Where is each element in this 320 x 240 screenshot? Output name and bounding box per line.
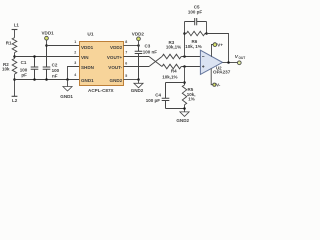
svg-text:C1: C1 (21, 60, 27, 65)
svg-text:100 pF: 100 pF (146, 98, 161, 103)
svg-text:VDD1: VDD1 (42, 30, 55, 35)
node feedback R6 left (183, 32, 186, 35)
wire feedback to output (207, 34, 229, 63)
ground GND1 (63, 87, 72, 92)
resistor R1 (12, 38, 17, 53)
node output junction (227, 61, 230, 64)
wire feedback right vertical (206, 22, 208, 34)
wire pin7 (124, 56, 150, 58)
svg-text:6: 6 (125, 61, 127, 65)
wire R5 branch vertical (184, 67, 186, 86)
wire R5 bottom (184, 105, 186, 112)
svg-text:V+: V+ (217, 42, 223, 47)
svg-text:10k, 1%: 10k, 1% (185, 44, 202, 49)
wire C4 tap (166, 82, 185, 84)
capacitor C2 (43, 46, 51, 80)
terminal L2 (12, 95, 18, 97)
svg-text:GND1: GND1 (81, 78, 94, 83)
node R4 junction (183, 65, 186, 68)
svg-text:VDD2: VDD2 (110, 45, 123, 50)
node C4 tap (183, 81, 186, 84)
wire R4 to op-amp (181, 66, 200, 68)
svg-text:3: 3 (74, 61, 76, 65)
svg-text:C4: C4 (155, 93, 161, 98)
op-amp minus input mark (202, 56, 204, 58)
svg-text:VOUT+: VOUT+ (107, 55, 123, 60)
wire R6 stubs (185, 33, 207, 35)
wire GND1 rail (15, 79, 80, 81)
capacitor C3 (135, 46, 143, 80)
op-amp plus input mark (202, 65, 204, 67)
capacitor C4 (162, 83, 170, 109)
svg-text:8: 8 (125, 40, 127, 44)
svg-text:U1: U1 (87, 32, 93, 38)
capacitor C5 (185, 18, 207, 25)
svg-text:GND1: GND1 (60, 94, 73, 99)
wire VDD2 drop (138, 41, 140, 46)
svg-text:100: 100 (52, 68, 60, 73)
wire VIN (15, 56, 80, 58)
svg-text:OUT: OUT (239, 56, 246, 60)
wire pin8 (124, 45, 139, 47)
wire GND1 stub (67, 80, 69, 87)
svg-text:1: 1 (74, 40, 76, 44)
svg-text:GND2: GND2 (176, 118, 189, 123)
wire R3 to op-amp (181, 56, 200, 58)
wire feedback left vertical (184, 22, 186, 57)
node GND2 junction (137, 78, 140, 81)
wire V+ to op-amp (212, 45, 214, 57)
supply terminal VDD1 (45, 36, 49, 40)
svg-text:10k,1%: 10k,1% (162, 74, 177, 79)
wire L1 to R1 (14, 30, 16, 38)
svg-text:VDD1: VDD1 (81, 45, 94, 50)
wire C4 bottom (166, 108, 185, 110)
node divider junction (13, 55, 16, 58)
svg-text:GND2: GND2 (131, 88, 144, 93)
terminal L1 (12, 29, 18, 31)
svg-text:L2: L2 (12, 98, 18, 103)
resistor R3 (162, 54, 181, 59)
svg-text:10k: 10k (2, 67, 10, 72)
wire pin3 SHDN elbow (68, 67, 80, 80)
svg-text:10k,1%: 10k,1% (166, 45, 181, 50)
node VDD1 junction (45, 44, 48, 47)
node C2 bottom (45, 78, 48, 81)
node R5 bottom junction (183, 107, 186, 110)
wire pin1 (47, 45, 80, 47)
ground GND2 left (134, 83, 143, 88)
svg-text:C3: C3 (145, 44, 151, 49)
svg-text:VOUT-: VOUT- (108, 65, 122, 70)
node C1 top (33, 55, 36, 58)
svg-text:ACPL-C87X: ACPL-C87X (88, 88, 114, 93)
node feedback R6 right (205, 32, 208, 35)
isolation amplifier IC U1 body (80, 42, 124, 86)
svg-text:nF: nF (52, 73, 58, 78)
wire output (223, 62, 238, 64)
svg-text:100 nF: 100 nF (143, 50, 158, 55)
supply terminal V- (213, 83, 216, 86)
node SHDN/GND junction (66, 78, 69, 81)
resistor R6 (186, 31, 205, 35)
wire pin6 (124, 66, 150, 68)
ground GND2 bottom (180, 112, 189, 117)
resistor R2 (12, 59, 17, 75)
terminal VOUT (237, 61, 241, 65)
op-amp U2 body (200, 50, 222, 74)
supply terminal VDD2 (137, 37, 141, 41)
capacitor C1 (31, 57, 39, 80)
wire GND2 stub (138, 80, 140, 84)
svg-text:R4: R4 (171, 69, 177, 74)
node R3 feedback junction (183, 55, 186, 58)
resistor R5 (182, 85, 186, 105)
node C1 bottom (33, 78, 36, 81)
supply terminal V+ (213, 43, 217, 47)
svg-text:L1: L1 (14, 22, 20, 27)
svg-text:C2: C2 (52, 62, 58, 67)
svg-text:SHDN: SHDN (81, 65, 94, 70)
svg-text:1%: 1% (188, 97, 195, 102)
node ground-rail junction (13, 78, 16, 81)
node VDD2 junction (137, 44, 140, 47)
svg-text:4: 4 (74, 73, 76, 77)
resistor R4 (162, 64, 181, 69)
svg-text:2: 2 (74, 51, 76, 55)
wire R1 to node (14, 53, 16, 59)
svg-text:GND2: GND2 (110, 78, 123, 83)
svg-text:100 pF: 100 pF (188, 9, 203, 14)
svg-text:7: 7 (125, 50, 127, 54)
wire V- from op-amp (211, 68, 213, 84)
svg-text:VDD2: VDD2 (132, 32, 145, 37)
svg-text:R1: R1 (6, 40, 12, 45)
wire VDD1 drop (46, 40, 48, 46)
svg-text:5: 5 (125, 74, 127, 78)
svg-text:pF: pF (21, 72, 27, 77)
wire R2 to L2 (14, 74, 16, 96)
svg-text:VIN: VIN (81, 55, 89, 60)
wire crossover (149, 57, 162, 67)
svg-text:V-: V- (216, 82, 221, 87)
svg-text:OPA237: OPA237 (213, 70, 231, 75)
wire pin5 (124, 79, 139, 81)
